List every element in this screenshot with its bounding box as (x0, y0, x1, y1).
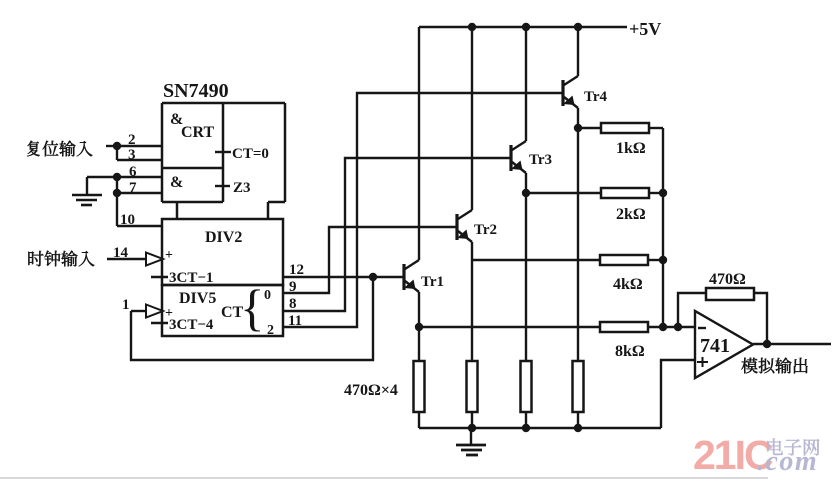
svg-text:11: 11 (288, 313, 302, 329)
wire feedback to output (754, 293, 767, 344)
wire pin7 down to pin 10 (116, 193, 118, 226)
ground (left) (72, 177, 102, 205)
transistor Q4 (563, 76, 608, 108)
svg-text:741: 741 (700, 335, 730, 357)
node bus 2k (659, 189, 667, 197)
svg-text:DIV2: DIV2 (205, 229, 242, 246)
svg-text:1kΩ: 1kΩ (616, 140, 646, 157)
wire R6 top (471, 260, 473, 361)
wire R8 bottom (577, 412, 579, 428)
IC U1 DIV2 block (162, 219, 283, 285)
node ground bus Tr2 (468, 424, 476, 432)
node ground bus Tr4 (574, 424, 582, 432)
svg-text:Tr2: Tr2 (474, 222, 497, 238)
node bus 4k (659, 256, 667, 264)
ground (bottom) (456, 428, 486, 455)
node pin7 junction (113, 189, 121, 197)
+5V power rail (419, 19, 661, 39)
bus connecting weighted resistors (662, 128, 664, 327)
wire pin 3 (117, 147, 162, 163)
DIV5 clock input triangle and + (146, 305, 173, 322)
op-amp U2 741 (695, 311, 753, 378)
resistor R2 2k (601, 188, 649, 223)
svg-text:3CT−4: 3CT−4 (169, 317, 214, 333)
resistor R6 470 ohm (467, 361, 478, 412)
svg-text:CT=0: CT=0 (232, 146, 269, 162)
label clock input (shizhong shuru) (28, 251, 94, 267)
wire Tr2 emitter down (471, 242, 473, 260)
svg-text:470Ω×4: 470Ω×4 (344, 382, 398, 399)
node Tr4 emitter / 1k row (574, 124, 582, 132)
pin tick CT=0 (215, 146, 269, 162)
wire pin 9 to Tr2 base (283, 227, 457, 295)
label & CRT (170, 111, 215, 141)
label CT brace 0..2 (221, 281, 274, 339)
svg-text:2: 2 (128, 132, 136, 148)
DIV2 clock input triangle and + (146, 248, 173, 266)
wire R7 bottom (525, 412, 527, 428)
node Tr3 emitter / 2k row (522, 189, 530, 197)
wire pin 10 (117, 212, 162, 228)
wire 4k to bus (648, 259, 663, 261)
wire to ground (87, 176, 117, 178)
svg-text:+: + (165, 248, 173, 263)
tab between control block and DIV2 (left) (176, 202, 179, 219)
svg-text:9: 9 (289, 279, 297, 295)
svg-text:{: { (240, 281, 264, 337)
svg-text:12: 12 (289, 262, 304, 278)
resistor R9 470 feedback (706, 271, 754, 300)
wire pin 2 (117, 132, 162, 148)
wire Tr4 emitter down (577, 108, 579, 128)
wire R8 top (577, 128, 579, 361)
resistor R3 4k (600, 255, 648, 293)
wire R7 top (525, 193, 527, 361)
label analog output (moni shuchu) (741, 358, 807, 374)
tab between control block and DIV2 (right) (267, 202, 270, 219)
wire junction down to pin 3 (116, 146, 118, 160)
ground bus wire (419, 427, 661, 429)
pin tick Z3 (215, 180, 251, 196)
transistor Q3 (511, 141, 552, 173)
wire output (753, 343, 831, 345)
svg-text:8: 8 (289, 296, 297, 312)
scan artifact line (0, 477, 768, 479)
wire R5 bottom (418, 412, 420, 428)
wire op-amp non-inverting input to ground bus (661, 360, 695, 428)
svg-text:6: 6 (129, 164, 137, 180)
transistor Q1 (404, 260, 444, 292)
resistor R7 470 ohm (521, 361, 532, 412)
node ground bus Tr3 (522, 424, 530, 432)
node pin6 junction (113, 173, 121, 181)
wire Tr1 emitter down (418, 292, 420, 327)
wire pin 1 (122, 297, 146, 313)
resistor R5 470 ohm (414, 361, 425, 412)
wire 1k to bus (649, 127, 663, 129)
svg-text:3CT−1: 3CT−1 (169, 270, 213, 286)
junction on +5V rail at Tr2 collector (468, 23, 476, 31)
svg-text:Tr4: Tr4 (584, 89, 608, 105)
wire pin 7 (117, 180, 162, 196)
wire pin 8 to Tr3 base (283, 158, 511, 312)
svg-text:4kΩ: 4kΩ (613, 276, 643, 293)
svg-text:DIV5: DIV5 (179, 290, 216, 307)
label 470 ohm x4 (344, 382, 398, 399)
svg-text:Tr1: Tr1 (421, 274, 444, 290)
label 3CT-1 with tick (151, 270, 213, 286)
svg-text:2: 2 (267, 323, 274, 338)
wire pin 12 to Tr1 base (283, 262, 404, 278)
wire 2k to bus (649, 192, 663, 194)
svg-text:.com: .com (757, 446, 818, 477)
wire 8k row (419, 326, 600, 328)
node feedback junction (674, 323, 682, 331)
wire R6 bottom (471, 412, 473, 428)
node Tr1 emitter / 8k row (415, 323, 423, 331)
wire Tr2 collector to +5V rail (471, 27, 473, 210)
resistor R8 470 ohm (573, 361, 584, 412)
svg-text:Z3: Z3 (233, 180, 251, 196)
node pin12 feedback junction (369, 273, 377, 281)
wire reset input to junction (106, 145, 117, 147)
svg-text:&: & (170, 174, 183, 191)
transistor Q2 (457, 210, 497, 242)
wire pin 6 (117, 164, 162, 180)
svg-text:2kΩ: 2kΩ (616, 206, 646, 223)
svg-text:8kΩ: 8kΩ (615, 343, 645, 360)
wire feedback pin12 to pin1 (131, 277, 373, 360)
wire R5 top (418, 327, 420, 361)
IC U1 DIV5 block (162, 285, 283, 336)
node reset junction (113, 142, 121, 150)
junction on +5V rail at Tr4 collector (574, 23, 582, 31)
wire pin6 to pin7 (116, 177, 118, 193)
wire pin 11 to Tr4 base (283, 93, 563, 329)
node output junction (763, 340, 771, 348)
svg-text:14: 14 (113, 245, 129, 261)
svg-text:0: 0 (264, 288, 271, 303)
wire Tr4 collector to +5V rail (577, 27, 579, 76)
wire 2k row (526, 192, 601, 194)
wire feedback up (678, 293, 706, 327)
wire 8k to op-amp inverting input (648, 326, 695, 328)
label 3CT-4 with tick (151, 317, 214, 333)
wire Tr3 collector to +5V rail (525, 27, 527, 141)
wire Tr1 collector to +5V rail (418, 27, 420, 260)
svg-text:CRT: CRT (181, 124, 215, 141)
label reset input (fuwei shuru) (27, 141, 92, 157)
IC U1 common-control block outline (162, 103, 285, 202)
svg-text:1: 1 (122, 297, 130, 313)
svg-text:SN7490: SN7490 (163, 80, 229, 102)
node bus 8k (659, 323, 667, 331)
wire 1k row (578, 127, 601, 129)
wire pin 14 clock (107, 245, 146, 261)
junction on +5V rail at Tr3 collector (522, 23, 530, 31)
svg-text:7: 7 (129, 180, 137, 196)
watermark dianziwang (767, 438, 819, 455)
svg-text:+5V: +5V (629, 19, 661, 39)
svg-text:10: 10 (120, 212, 135, 228)
resistor R4 8k (600, 322, 648, 360)
resistor R1 1k (601, 123, 649, 157)
wire Tr3 emitter down (525, 173, 527, 193)
svg-text:Tr3: Tr3 (529, 152, 552, 168)
svg-text:470Ω: 470Ω (709, 271, 746, 288)
wire 4k row (472, 259, 600, 261)
svg-text:3: 3 (128, 147, 136, 163)
